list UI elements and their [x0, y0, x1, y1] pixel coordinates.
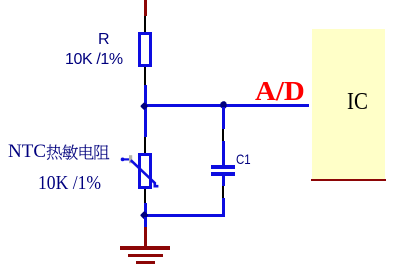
capacitor C1 top pin (black): [222, 129, 224, 141]
IC block bottom border: [311, 179, 386, 181]
junction diamond at ground node: [138, 209, 151, 222]
junction dot at capacitor tap: [219, 101, 228, 110]
capacitor C1 top plate: [211, 165, 235, 169]
power rail stub (VCC, dark red wire): [144, 0, 147, 16]
resistor R bottom pin: [144, 67, 146, 85]
wire: ground stub (blue): [144, 217, 147, 227]
capacitor C1 bottom plate: [211, 172, 235, 176]
wire: thermistor bottom to bottom net (blue): [144, 203, 147, 217]
wire: main vertical net (R1 bottom to thermistor top): [144, 85, 147, 138]
IC pin label text "IC": [347, 94, 382, 110]
resistor R top pin: [144, 16, 146, 33]
capacitor C1 top lead (blue): [222, 141, 225, 166]
thermistor annotation text "NTC&#28909;&#25935;&#30005;&#38459;": [8, 142, 46, 161]
ground symbol lead (dark red): [144, 227, 147, 247]
IC block (yellow body): [312, 29, 385, 179]
junction diamond at node A (divider midpoint): [138, 100, 151, 113]
wire: capacitor branch upper (blue): [222, 107, 225, 129]
resistor R designator label "R": [98, 31, 110, 49]
ground symbol bar 2: [128, 254, 163, 257]
ground symbol bar 1: [120, 246, 170, 249]
net label "A/D": [255, 78, 305, 105]
capacitor C1 label "C1": [236, 151, 251, 167]
thermistor (NTC) bottom pin: [144, 189, 146, 203]
resistor R body: [138, 32, 152, 67]
capacitor C1 bottom pin (black): [222, 186, 224, 199]
thermistor (NTC) top pin: [144, 137, 146, 153]
thermistor annotation CJK text (re-min-dian-zu): [46, 142, 112, 164]
capacitor C1 bottom lead (blue): [222, 176, 225, 186]
resistor R value label "10K /1%": [65, 51, 123, 69]
thermistor (NTC) diagonal arrow symbol: [117, 151, 163, 191]
thermistor (NTC) body: [138, 153, 152, 189]
ground symbol bar 3: [136, 261, 155, 264]
wire: A/D horizontal net: [145, 104, 309, 107]
wire: bottom horizontal net: [144, 214, 225, 217]
wire: capacitor branch lower (blue, corner to bottom net): [222, 198, 225, 217]
thermistor value annotation "10K /1%": [38, 173, 101, 193]
